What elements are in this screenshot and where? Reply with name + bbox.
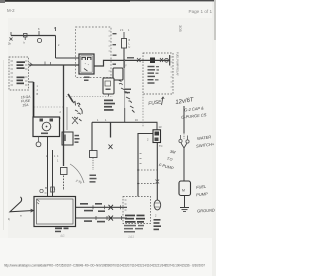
- svg-text:M: M: [182, 189, 185, 193]
- svg-text:FUEL PUMP RELAY: FUEL PUMP RELAY: [176, 52, 180, 76]
- svg-text:Page 1 of 1: Page 1 of 1: [189, 9, 213, 14]
- svg-text:M-2: M-2: [7, 8, 15, 13]
- svg-text:FUEL: FUEL: [196, 184, 207, 190]
- svg-text:http://www.alldatapro.com/alld: http://www.alldatapro.com/alldata/PRO~V5…: [4, 264, 205, 268]
- svg-text:GROUND: GROUND: [197, 207, 215, 213]
- svg-text:305: 305: [178, 25, 183, 32]
- svg-text:m: m: [20, 216, 22, 218]
- svg-text:PUMP: PUMP: [196, 191, 208, 197]
- svg-text:4G: 4G: [60, 234, 65, 238]
- svg-text:TC: TC: [159, 144, 163, 148]
- svg-text:4): 4): [8, 219, 10, 221]
- svg-text:1A1: 1A1: [128, 235, 134, 239]
- svg-text:15A: 15A: [22, 103, 29, 107]
- svg-text:U: U: [129, 46, 131, 49]
- svg-text:Y: Y: [125, 64, 127, 68]
